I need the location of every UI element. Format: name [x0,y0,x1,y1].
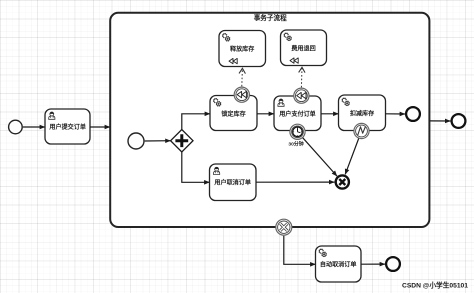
svg-text:释放库存: 释放库存 [230,45,254,53]
wire: 自动取消订单 to end [361,263,385,265]
wire: 用户支付订单 to 扣减库存 [321,113,339,115]
wire: boundary cancel to task 自动取消订单 [284,236,316,265]
wire: inner start to gateway [145,140,171,142]
start event (outer) [9,120,23,134]
svg-text:用户取消订单: 用户取消订单 [213,179,251,187]
end event (inner) [406,107,420,121]
boundary compensation event on 用户支付订单 [294,88,309,103]
end event (bottom) [386,257,400,271]
wire: gateway to task 用户取消订单 [182,152,210,182]
svg-text:CSDN @小学生05101: CSDN @小学生05101 [402,281,468,290]
end event (outer right) [452,114,466,128]
association: compensation to 费用退回 [300,68,303,88]
svg-text:扣减库存: 扣减库存 [350,110,374,118]
wire: 锁定库存 to 用户支付订单 [257,113,274,115]
subprocess 事务子流程 [110,13,429,227]
svg-text:锁定库存: 锁定库存 [221,110,245,118]
svg-text:用户支付订单: 用户支付订单 [278,110,316,118]
svg-text:自动取消订单: 自动取消订单 [320,261,357,269]
wire: timer to cancel end (diagonal) [303,138,337,176]
wire: start to task 用户提交订单 [23,126,45,128]
wire: gateway to task 锁定库存 [182,114,210,130]
svg-text:30分钟: 30分钟 [288,140,303,147]
wire: 扣减库存 to inner end [386,113,406,115]
task 锁定库存 (service task) [210,96,257,131]
task 扣减库存 (service task) [339,95,386,131]
boundary timer event on 用户支付订单 [290,124,305,139]
task 用户支付订单 (user task) [274,96,321,131]
wire: subprocess to outer end [430,120,451,122]
wire: task to subprocess [90,126,110,128]
task 自动取消订单 (service task) [316,246,362,282]
parallel gateway [171,130,193,152]
boundary error event on 扣减库存 [354,123,369,138]
wire: error to cancel end (diagonal) [345,139,359,175]
task 费用退回 (compensation service task) [281,30,327,66]
wire: 用户取消订单 to cancel end [256,181,334,183]
cancel end event (X) [336,175,349,188]
boundary cancel event on subprocess [276,219,292,235]
association: compensation to 释放库存 [241,69,244,87]
task 用户取消订单 (user task) [210,164,257,201]
start event (inner) [128,133,144,149]
svg-text:用户提交订单: 用户提交订单 [48,123,86,131]
svg-text:事务子流程: 事务子流程 [254,13,287,22]
boundary compensation event on 锁定库存 [234,87,249,102]
task 释放库存 (compensation service task) [219,31,266,67]
svg-text:费用退回: 费用退回 [291,45,315,53]
task 用户提交订单 (user task) [45,109,90,144]
